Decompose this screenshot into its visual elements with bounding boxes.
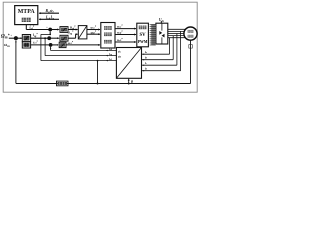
five phase wires inverter to motor: [168, 28, 185, 30]
current sense riser b: [172, 36, 174, 60]
PWM gate signal bundle to inverter: [150, 24, 156, 26]
d-axis current regulator ACR box: [60, 27, 68, 33]
five-phase PMSM motor circle: [184, 27, 197, 40]
svg-text:ψβ: ψβ: [118, 56, 121, 59]
signal access module box (xin hao jie ru mo kuai): [101, 23, 115, 49]
wire speed ref into summing junction: [9, 37, 14, 39]
svg-text:SV: SV: [140, 33, 147, 38]
wire to d-axis current regulator: [52, 29, 59, 31]
svg-text:MTPA: MTPA: [18, 9, 36, 15]
wire u_s0* to SVPWM: [115, 41, 136, 43]
omega_m riser to speed summing junction: [15, 41, 17, 84]
inverter internal symbol: [161, 23, 163, 30]
wire u_sa* to SVPWM: [115, 28, 136, 30]
feedback wire i_sd wrap: [51, 50, 117, 52]
svg-text:ωm: ωm: [4, 42, 10, 48]
summing junction d-axis: [48, 28, 52, 32]
theta distribution stem joining harmonic wrap line to bottom feedback line: [97, 60, 99, 62]
harmonic current regulator box: [59, 42, 66, 47]
wire i_s3* to summing junction: [31, 44, 49, 46]
summing junction q-axis: [47, 36, 51, 40]
wire u_sbeta* to signal access module: [87, 33, 100, 35]
wire u_sd* to rotation transform: [68, 29, 78, 31]
svg-text:PWM: PWM: [138, 40, 148, 44]
current sense riser c: [176, 34, 178, 66]
figure border frame: [3, 2, 197, 92]
wire u_s3* to signal access module: [66, 44, 100, 46]
feedback wire i_sq wrap: [45, 55, 116, 57]
current sense riser d: [180, 31, 182, 70]
speed regulator ASR box: [22, 35, 30, 42]
motor shaft encoder stem: [190, 40, 192, 83]
svg-text:θ: θ: [131, 80, 133, 84]
parameter input arrow Rs,psi_f into MTPA: [39, 12, 59, 14]
svg-text:Rs,ψf: Rs,ψf: [46, 9, 55, 14]
wire to harmonic current regulator: [52, 44, 58, 46]
summing junction harmonic axis: [49, 43, 53, 47]
q-axis current regulator box: [60, 35, 68, 41]
wire u_salpha* to signal access module: [87, 29, 100, 31]
speed calculation box on feedback line: [57, 81, 69, 86]
wire u_sq* with jog up into rotation transform: [68, 37, 76, 39]
encoder glyph: [189, 45, 193, 49]
wire: MTPA output i_sd* down then right: [25, 25, 27, 30]
wire to speed regulator: [18, 37, 22, 39]
feedback wire i_s3 wrap: [41, 60, 117, 62]
wire u_sb* to SVPWM: [115, 34, 136, 36]
five-phase inverter box: [156, 23, 168, 44]
parameter input arrow Ld,Lq into MTPA: [39, 18, 59, 20]
MTPA module box: [15, 6, 38, 25]
harmonic current reference generator box: [22, 42, 30, 48]
svg-text:Ld,Lq: Ld,Lq: [45, 15, 55, 20]
bottom feedback line: [16, 83, 191, 85]
theta branch up into Park transform: [128, 83, 130, 85]
rotation transform box dq to alpha-beta: [78, 26, 87, 39]
current sense riser a: [169, 38, 171, 55]
svg-text:Udc: Udc: [159, 18, 165, 23]
summing junction speed loop: [14, 36, 18, 40]
feedback Park transform box abc->dq: [116, 48, 141, 79]
SVPWM module box: [137, 23, 149, 47]
junction dot i_sq feedback joins: [44, 37, 46, 39]
wire to q-axis current regulator: [51, 37, 59, 39]
wire i_sq* to q-axis summing junction: [31, 37, 48, 39]
